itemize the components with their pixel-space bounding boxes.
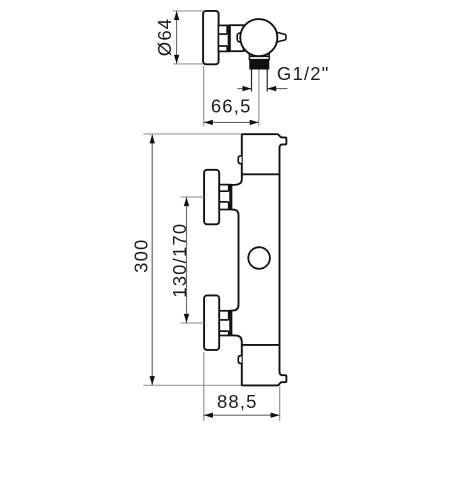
G1/2 arrow right-pointing — [243, 86, 252, 91]
body separation line lower — [242, 344, 280, 346]
arrow dia64 up — [174, 11, 179, 20]
arrow dia64 down — [174, 55, 179, 64]
svg-text:G1/2": G1/2" — [277, 63, 330, 84]
arrow 66,5 right — [250, 120, 259, 125]
dim line 88,5 — [204, 414, 279, 416]
svg-text:Ø64: Ø64 — [154, 18, 175, 56]
ext line 66,5 left — [203, 66, 205, 126]
arrow 300 up — [150, 134, 155, 143]
arrow 300 down — [150, 376, 155, 385]
stem 1 — [219, 185, 230, 210]
collar top edge — [249, 55, 269, 57]
ext line 88,5 left — [203, 352, 205, 421]
union connector (top view) — [218, 25, 228, 51]
pipe centre ext line — [258, 69, 260, 126]
arrow 130/170 up — [184, 197, 189, 206]
right lug (tab) — [275, 32, 287, 43]
body outline (front view) — [231, 134, 286, 385]
ext line bottom (dia 64, lower) — [173, 63, 203, 65]
svg-text:66,5: 66,5 — [211, 96, 252, 117]
screw bump upper — [238, 156, 241, 164]
ext line 300 bottom — [143, 384, 280, 386]
dim line 300 — [151, 135, 153, 385]
ext line 300 top — [143, 133, 241, 135]
outlet thread (black band) — [249, 60, 269, 70]
ext line 88,5 right — [279, 387, 281, 421]
svg-text:300: 300 — [130, 239, 151, 273]
dim line dia64 — [176, 12, 178, 64]
G1/2 dim line right part — [267, 88, 287, 90]
knob 1 — [204, 170, 219, 225]
svg-text:130/170: 130/170 — [169, 223, 190, 298]
ext line 130/170 bottom — [181, 322, 205, 324]
screw bump lower — [238, 356, 241, 364]
knob 2 — [204, 295, 219, 350]
dim line 66,5 — [204, 121, 259, 123]
valve body (top view) — [230, 25, 244, 51]
body circle — [248, 247, 270, 269]
arrow 130/170 down — [184, 314, 189, 323]
arrow 88,5 left — [204, 413, 213, 418]
ext line 130/170 top — [181, 196, 205, 198]
G1/2 dim line left part — [238, 88, 252, 90]
stem 2 — [219, 311, 230, 336]
wall plate — [203, 11, 219, 64]
handle ear (left lug) — [237, 33, 244, 42]
dim line 130/170 — [186, 197, 188, 322]
pipe outline left — [251, 69, 253, 91]
body separation line upper — [242, 173, 280, 175]
svg-text:88,5: 88,5 — [217, 391, 258, 412]
pipe outline right — [266, 69, 268, 91]
arrow 66,5 left — [204, 120, 213, 125]
outlet collar — [249, 50, 269, 60]
arrow 88,5 right — [271, 413, 280, 418]
knob circle (top view) — [240, 19, 277, 56]
G1/2 arrow left-pointing — [267, 86, 276, 91]
ext line top (dia 64, upper) — [173, 10, 203, 12]
